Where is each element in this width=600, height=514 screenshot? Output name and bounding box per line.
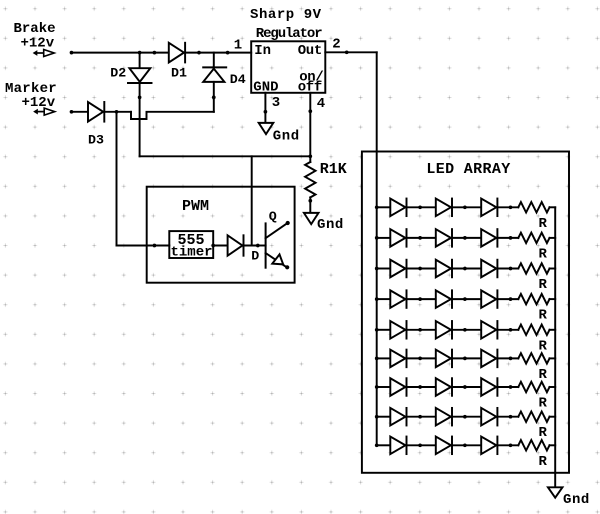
LED row 5 diode 2 bbox=[436, 321, 451, 339]
node segment end bbox=[153, 51, 157, 55]
wire row 3 to right bus bbox=[550, 268, 556, 270]
wire row 6 seg c bbox=[452, 357, 481, 359]
wire LED array right bus bbox=[554, 207, 556, 473]
wire row 2 seg c bbox=[452, 237, 481, 239]
node row 9 d bbox=[509, 443, 513, 447]
svg-text:In: In bbox=[254, 43, 271, 59]
node row 5 b bbox=[418, 328, 422, 332]
node row 2 c bbox=[463, 236, 467, 240]
node row 1 c bbox=[463, 205, 467, 209]
junction row 5 left bbox=[375, 328, 379, 332]
junction PWM tap bbox=[115, 110, 119, 114]
wire row 8 seg b bbox=[407, 416, 436, 418]
svg-text:D2: D2 bbox=[110, 65, 126, 80]
wire row 7 seg c bbox=[452, 386, 481, 388]
wire row 5 seg a bbox=[377, 329, 391, 331]
LED row 9 diode 3 bbox=[481, 437, 496, 455]
wire row 4 seg a bbox=[377, 298, 391, 300]
diode D2 (pointing down) bbox=[129, 68, 150, 82]
wire D2 anode lead bbox=[139, 53, 141, 69]
node before pin 1 bbox=[226, 51, 230, 55]
LED row 3 diode 1 bbox=[390, 260, 405, 278]
wire row 9 seg d bbox=[498, 444, 519, 446]
LED row 5 diode 1 bbox=[390, 321, 405, 339]
node row 7 c bbox=[463, 385, 467, 389]
svg-text:Sharp 9V: Sharp 9V bbox=[250, 7, 322, 23]
svg-text:4: 4 bbox=[317, 96, 325, 112]
wire D3 to jog bbox=[104, 111, 131, 113]
node on D2 line bbox=[138, 96, 142, 100]
wire row 4 seg c bbox=[452, 298, 481, 300]
LED row 9 diode 1 bbox=[390, 437, 405, 455]
wire row 8 to right bus bbox=[550, 416, 556, 418]
LED row 4 diode 2 bbox=[436, 290, 451, 308]
svg-text:Gnd: Gnd bbox=[273, 128, 300, 144]
resistor R row 7 bbox=[518, 382, 549, 392]
LED row 2 diode 2 bbox=[436, 229, 451, 247]
wire horizontal run to on/off node bbox=[140, 155, 311, 157]
resistor R row 1 bbox=[518, 202, 549, 212]
resistor R row 6 bbox=[518, 353, 549, 363]
svg-text:D: D bbox=[251, 249, 259, 264]
junction row 3 left bbox=[375, 267, 379, 271]
resistor R row 3 bbox=[518, 263, 549, 273]
wire row 5 seg c bbox=[452, 329, 481, 331]
LED row 7 diode 2 bbox=[436, 378, 451, 396]
svg-text:3: 3 bbox=[272, 95, 280, 111]
junction base node bbox=[256, 244, 260, 248]
wire into 555 timer input bbox=[117, 245, 170, 247]
wire row 4 to right bus bbox=[550, 298, 556, 300]
diode D1 bbox=[169, 43, 184, 63]
node row 4 d bbox=[509, 297, 513, 301]
LED row 4 diode 3 bbox=[481, 290, 496, 308]
wire pin 4 down to R1K bbox=[309, 93, 311, 162]
svg-text:+12v: +12v bbox=[22, 95, 56, 111]
svg-text:R: R bbox=[539, 425, 548, 441]
node row 8 c bbox=[463, 415, 467, 419]
node row 9 c bbox=[463, 443, 467, 447]
node row 3 c bbox=[463, 267, 467, 271]
wire row 3 seg c bbox=[452, 268, 481, 270]
svg-text:R: R bbox=[539, 216, 548, 232]
wire row 2 to right bus bbox=[550, 237, 556, 239]
input flag Marker bbox=[34, 110, 37, 114]
wire row 7 seg a bbox=[377, 386, 391, 388]
LED row 6 diode 2 bbox=[436, 350, 451, 368]
LED row 9 diode 2 bbox=[436, 437, 451, 455]
svg-text:PWM: PWM bbox=[182, 198, 209, 215]
input flag Brake bbox=[34, 51, 37, 55]
node row 3 b bbox=[418, 267, 422, 271]
LED row 8 diode 1 bbox=[390, 408, 405, 426]
node 555 output bbox=[211, 244, 215, 248]
wire Marker to D3 bbox=[72, 111, 89, 113]
wire row 1 seg d bbox=[498, 206, 519, 208]
wire row 2 seg b bbox=[407, 237, 436, 239]
wire row 9 seg a bbox=[377, 444, 391, 446]
node row 5 c bbox=[463, 328, 467, 332]
node row 6 c bbox=[463, 357, 467, 361]
LED row 8 diode 2 bbox=[436, 408, 451, 426]
wire D1 to regulator In pin 1 bbox=[185, 52, 251, 54]
node row 8 d bbox=[509, 415, 513, 419]
ground LED array bbox=[548, 487, 563, 497]
svg-text:timer: timer bbox=[171, 244, 213, 260]
node row 6 b bbox=[418, 357, 422, 361]
transistor Q1 bbox=[265, 223, 267, 267]
LED row 1 diode 1 bbox=[390, 199, 405, 217]
svg-text:Gnd: Gnd bbox=[563, 492, 590, 508]
wire row 6 seg d bbox=[498, 357, 519, 359]
node row 4 b bbox=[418, 297, 422, 301]
wire 555 out to diode D bbox=[213, 245, 227, 247]
diode D4 (pointing up) bbox=[203, 66, 226, 68]
LED row 7 diode 3 bbox=[481, 378, 496, 396]
node row 6 d bbox=[509, 357, 513, 361]
diode D3 bbox=[88, 102, 103, 122]
wire row 6 seg a bbox=[377, 357, 391, 359]
svg-text:R: R bbox=[539, 454, 548, 470]
node row 1 b bbox=[418, 205, 422, 209]
wire row 4 seg d bbox=[498, 298, 519, 300]
LED row 2 diode 3 bbox=[481, 229, 496, 247]
wire row 7 seg b bbox=[407, 386, 436, 388]
wire right bus to ground bbox=[554, 473, 556, 488]
node row 3 d bbox=[509, 267, 513, 271]
wire row 4 seg b bbox=[407, 298, 436, 300]
wire D2 cathode down to horizontal run bbox=[139, 83, 141, 156]
node Marker wire start bbox=[70, 110, 74, 114]
resistor R row 9 bbox=[518, 440, 549, 450]
svg-text:2: 2 bbox=[332, 36, 340, 52]
svg-text:Gnd: Gnd bbox=[317, 217, 344, 233]
junction row 7 left bbox=[375, 385, 379, 389]
resistor R1K bbox=[305, 162, 315, 197]
LED row 7 diode 1 bbox=[390, 378, 405, 396]
wire diode D to junction bbox=[244, 245, 258, 247]
regulator U1 box bbox=[251, 41, 325, 93]
wire row 7 to right bus bbox=[550, 386, 556, 388]
LED row 3 diode 2 bbox=[436, 260, 451, 278]
LED row 8 diode 3 bbox=[481, 408, 496, 426]
wire row 2 seg a bbox=[377, 237, 391, 239]
svg-text:+12v: +12v bbox=[21, 36, 55, 52]
junction on/off node bbox=[308, 154, 312, 158]
wire row 5 to right bus bbox=[550, 329, 556, 331]
node row 8 b bbox=[418, 415, 422, 419]
wire row 8 seg d bbox=[498, 416, 519, 418]
svg-text:1: 1 bbox=[234, 37, 242, 53]
svg-text:R: R bbox=[539, 367, 548, 383]
wire D4 anode down to marker net bbox=[213, 82, 215, 112]
node on Out wire bbox=[345, 50, 349, 54]
node on pin 4 lead bbox=[308, 109, 312, 113]
svg-text:R: R bbox=[539, 277, 548, 293]
junction row 1 left bbox=[375, 205, 379, 209]
svg-text:Out: Out bbox=[298, 43, 322, 59]
node on pin 3 lead bbox=[264, 110, 268, 114]
LED row 2 diode 1 bbox=[390, 229, 405, 247]
wire row 3 seg d bbox=[498, 268, 519, 270]
wire row 3 seg a bbox=[377, 268, 391, 270]
node row 2 d bbox=[509, 236, 513, 240]
wire R1K to ground bbox=[309, 197, 311, 213]
node row 9 b bbox=[418, 443, 422, 447]
wire row 5 seg b bbox=[407, 329, 436, 331]
wire pin 3 to ground bbox=[264, 93, 266, 123]
node at PWM box entry bbox=[153, 244, 157, 248]
junction row 8 left bbox=[375, 415, 379, 419]
svg-text:D1: D1 bbox=[171, 66, 187, 81]
LED row 3 diode 3 bbox=[481, 260, 496, 278]
wire Out pin 2 to LED array bbox=[325, 51, 376, 53]
node Brake wire start bbox=[70, 51, 74, 55]
resistor R row 2 bbox=[518, 233, 549, 243]
svg-text:R1K: R1K bbox=[320, 161, 347, 178]
wire row 1 seg a bbox=[377, 206, 391, 208]
wire to Q base bbox=[258, 245, 266, 247]
wire marker tap down to 555 bbox=[116, 112, 118, 246]
wire row 9 to right bus bbox=[550, 444, 556, 446]
node below R1K bbox=[308, 199, 312, 203]
PWM block box bbox=[147, 187, 295, 283]
svg-text:Q: Q bbox=[269, 209, 277, 224]
wire on/off node down into PWM bbox=[251, 156, 253, 245]
terminal Q emitter bbox=[285, 265, 289, 269]
node on D4 line bbox=[212, 96, 216, 100]
svg-text:LED ARRAY: LED ARRAY bbox=[426, 161, 510, 178]
wire row 7 seg d bbox=[498, 386, 519, 388]
svg-text:R: R bbox=[539, 308, 548, 324]
resistor R row 8 bbox=[518, 412, 549, 422]
junction D2 tap bbox=[138, 51, 142, 55]
wire row 2 seg d bbox=[498, 237, 519, 239]
wire row 6 seg b bbox=[407, 357, 436, 359]
ground R1K bbox=[304, 213, 319, 224]
wire Brake to D1 bbox=[72, 52, 169, 54]
node row 2 b bbox=[418, 236, 422, 240]
node row 7 b bbox=[418, 385, 422, 389]
node row 5 d bbox=[509, 328, 513, 332]
node row 4 c bbox=[463, 297, 467, 301]
node after D1 bbox=[197, 51, 201, 55]
node row 7 d bbox=[509, 385, 513, 389]
svg-text:D4: D4 bbox=[230, 72, 246, 87]
svg-text:Regulator: Regulator bbox=[256, 26, 322, 42]
LED row 4 diode 1 bbox=[390, 290, 405, 308]
LED row 6 diode 3 bbox=[481, 350, 496, 368]
LED row 6 diode 1 bbox=[390, 350, 405, 368]
ground pin 3 bbox=[259, 123, 274, 134]
LED row 5 diode 3 bbox=[481, 321, 496, 339]
svg-text:R: R bbox=[539, 396, 548, 412]
resistor R row 5 bbox=[518, 325, 549, 335]
resistor R row 4 bbox=[518, 294, 549, 304]
wire jog under D2 line to D4 bbox=[131, 112, 214, 119]
junction row 9 left bbox=[375, 443, 379, 447]
wire LED array left bus bbox=[376, 207, 378, 445]
svg-text:R: R bbox=[539, 246, 548, 262]
wire row 8 seg a bbox=[377, 416, 391, 418]
LED row 1 diode 2 bbox=[436, 199, 451, 217]
LED ARRAY box bbox=[362, 152, 569, 473]
junction row 6 left bbox=[375, 357, 379, 361]
wire row 8 seg c bbox=[452, 416, 481, 418]
junction row 2 left bbox=[375, 236, 379, 240]
wire row 6 to right bus bbox=[550, 357, 556, 359]
wire row 9 seg c bbox=[452, 444, 481, 446]
555 timer box bbox=[169, 231, 213, 258]
wire row 1 to right bus bbox=[550, 206, 556, 208]
terminal Q collector bbox=[286, 221, 290, 225]
wire row 1 seg b bbox=[407, 206, 436, 208]
junction row 4 left bbox=[375, 297, 379, 301]
wire D4 cathode lead bbox=[213, 53, 215, 68]
diode D bbox=[228, 235, 243, 255]
svg-text:R: R bbox=[539, 338, 548, 354]
wire row 5 seg d bbox=[498, 329, 519, 331]
wire row 1 seg c bbox=[452, 206, 481, 208]
wire row 9 seg b bbox=[407, 444, 436, 446]
wire row 3 seg b bbox=[407, 268, 436, 270]
wire down to LED array row 1 bbox=[376, 52, 378, 207]
svg-text:D3: D3 bbox=[88, 132, 104, 147]
LED row 1 diode 3 bbox=[481, 199, 496, 217]
node row 1 d bbox=[509, 205, 513, 209]
